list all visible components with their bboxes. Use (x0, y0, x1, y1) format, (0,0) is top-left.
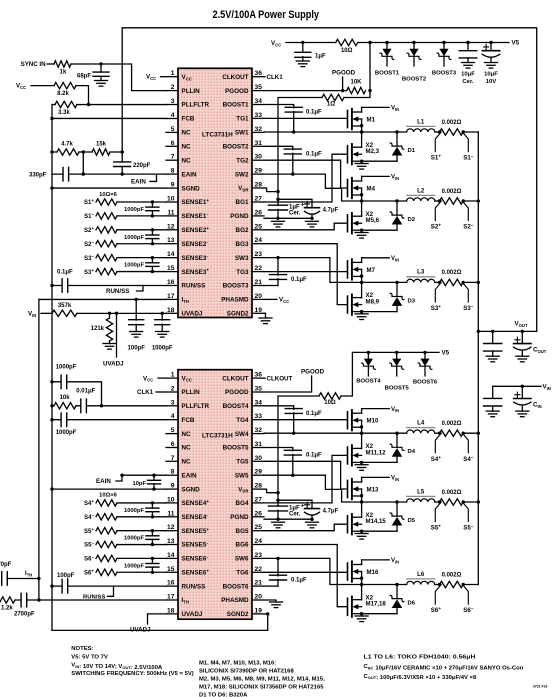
wire TG row U2ch6 (264, 571, 348, 573)
svg-text:28: 28 (255, 182, 263, 189)
UVADJ net stub (116, 313, 118, 357)
svg-text:PGOOD: PGOOD (225, 389, 249, 396)
capacitor 1000pF sense filter (124, 200, 159, 217)
svg-text:33: 33 (255, 413, 263, 420)
wire (47, 63, 54, 65)
schottky diode BOOST6 (413, 351, 438, 386)
svg-text:10pF: 10pF (132, 481, 146, 487)
svg-text:1μF: 1μF (315, 54, 326, 60)
capacitor 10uF 10V polarized (482, 43, 499, 86)
U1 (top LTC3731H) pin 21 BOOST3 (223, 279, 264, 290)
U2 (bottom LTC3731H) pin 4 FCB (166, 413, 195, 424)
svg-text:4: 4 (171, 413, 175, 420)
svg-text:15: 15 (167, 566, 175, 573)
schottky diode D3 (362, 281, 416, 312)
svg-text:3.3k: 3.3k (58, 110, 70, 116)
wire node to inductor ch2 (362, 200, 407, 202)
inductor L6 (406, 571, 435, 585)
ground (306, 522, 319, 528)
svg-text:14: 14 (167, 251, 175, 258)
svg-text:20: 20 (255, 594, 263, 601)
svg-text:M1: M1 (367, 117, 376, 124)
wire V5 drop (344, 43, 370, 98)
VOUT net label (515, 320, 528, 327)
ground (272, 522, 285, 528)
svg-text:0.002Ω: 0.002Ω (442, 270, 462, 276)
svg-text:SGND2: SGND2 (227, 611, 249, 618)
wire EAIN row (52, 173, 166, 175)
svg-text:1000pF: 1000pF (56, 430, 77, 436)
wire source to ground ch5 (360, 530, 363, 534)
svg-text:SENSE3-: SENSE3- (182, 254, 209, 262)
svg-text:SENSE6-: SENSE6- (182, 555, 209, 563)
svg-text:BOOST2: BOOST2 (402, 77, 427, 83)
svg-text:PGND: PGND (230, 213, 249, 220)
wire node to inductor ch3 (362, 281, 407, 283)
wire source to ground ch2 (360, 229, 363, 233)
capacitor COUT polarized (514, 331, 547, 356)
transistor M14,15 (bottom x2) (348, 512, 387, 535)
svg-text:BOOST5: BOOST5 (223, 445, 249, 452)
wire switch node ch2 (360, 188, 363, 216)
transistor M5,6 (bottom x2) (348, 211, 380, 234)
svg-text:10V: 10V (486, 79, 497, 85)
ground (355, 534, 368, 540)
svg-text:Cer.: Cer. (289, 211, 301, 217)
U1 (top LTC3731H) pin 19 SGND2 (227, 307, 264, 318)
U1 (top LTC3731H) pin 11 SENSE1-s (166, 209, 208, 220)
svg-text:PGOOD: PGOOD (225, 88, 249, 95)
svg-text:10Ω×6: 10Ω×6 (99, 493, 117, 499)
node junction (368, 41, 371, 44)
wire switch node ch4 (360, 420, 363, 448)
transistor M7 (top) (348, 258, 376, 280)
ground (270, 602, 283, 608)
CLK1 net label U2 pin2 (137, 389, 166, 396)
U2 sense input S5– with 10ohm resistor (84, 541, 166, 549)
VIN label (28, 311, 36, 318)
wire switch node ch6 (360, 572, 363, 600)
svg-text:12: 12 (167, 524, 175, 531)
svg-text:VIN: VIN (391, 256, 399, 262)
U1 (top LTC3731H) pin 30 TG2 (236, 154, 264, 165)
wire TG row U2ch5 (264, 461, 348, 489)
capacitor 1000pF (152, 313, 173, 351)
node junction (161, 312, 164, 315)
svg-text:CLK1: CLK1 (137, 389, 154, 396)
U1 (top LTC3731H) pin 3 PLLFLTR (166, 98, 209, 109)
1uF label (289, 201, 305, 216)
UVADJ stub U2 (148, 614, 167, 624)
svg-text:RUN/SS: RUN/SS (182, 583, 206, 590)
node junction (438, 130, 465, 133)
svg-text:PHASMD: PHASMD (221, 597, 249, 604)
sense tap lead S5+ (431, 502, 442, 532)
svg-text:UVADJ: UVADJ (103, 361, 124, 368)
svg-text:2: 2 (171, 386, 175, 393)
resistor 4.7k (57, 142, 79, 156)
node junction (82, 150, 85, 153)
U2 (bottom LTC3731H) pin 8 EAIN (166, 469, 197, 480)
svg-text:M10: M10 (367, 418, 379, 425)
wire VDR jog U2 (264, 489, 278, 493)
node junction (82, 172, 85, 175)
U1 sense input S3– with 10ohm resistor (84, 254, 166, 262)
resistor 8.2k (54, 82, 76, 97)
svg-text:UVADJ: UVADJ (182, 611, 203, 618)
resistor 0.002 ohm sense ch2 (440, 189, 464, 204)
IC U1 (top LTC3731H) body (178, 68, 252, 317)
ground (130, 332, 143, 338)
wire source to ground ch6 (360, 612, 363, 616)
U1 sense input S1– with 10ohm resistor (84, 212, 166, 220)
svg-text:Cer.: Cer. (289, 512, 301, 518)
feedback wire from VOUT (121, 28, 123, 152)
capacitor 0.1uF boost (285, 409, 322, 434)
ground (516, 411, 529, 417)
svg-text:D3: D3 (408, 298, 416, 304)
svg-text:SW6: SW6 (235, 556, 249, 563)
transistor M8,9 (bottom x2) (348, 292, 380, 315)
ground (306, 221, 319, 227)
svg-text:10Ω×6: 10Ω×6 (99, 192, 117, 198)
svg-text:SENSE5-: SENSE5- (182, 541, 209, 549)
svg-text:5: 5 (171, 427, 175, 434)
U1 sense input S2+ with 10ohm resistor (84, 226, 166, 234)
svg-text:SYNC IN: SYNC IN (21, 61, 47, 68)
svg-text:L1: L1 (417, 118, 425, 125)
figure number (533, 685, 547, 689)
node junction (87, 103, 90, 106)
svg-text:33: 33 (255, 112, 263, 119)
resistor 3.3k (55, 101, 77, 116)
resistor 0.002 ohm sense ch1 (440, 120, 464, 135)
wire node to inductor ch6 (362, 584, 407, 586)
svg-text:RUN/SS: RUN/SS (106, 288, 129, 295)
U2 (bottom LTC3731H) pin 35 PGOOD (225, 386, 264, 397)
svg-text:NOTES:: NOTES: (71, 646, 93, 652)
capacitor 68pF (77, 64, 109, 81)
svg-text:M2, M3, M5, M6, M8, M9, M11, M: M2, M3, M5, M6, M8, M9, M11, M12, M14, M… (199, 677, 325, 683)
U1 (top LTC3731H) pin 34 BOOST1 (223, 98, 264, 109)
svg-text:D1 TO D6: B320A: D1 TO D6: B320A (199, 693, 248, 697)
svg-text:PLLFLTR: PLLFLTR (182, 102, 210, 109)
svg-text:10: 10 (167, 496, 175, 503)
U2 (bottom LTC3731H) pin 9 SGND (166, 483, 200, 494)
sense tap lead S2+ (431, 201, 442, 231)
svg-text:270pF: 270pF (0, 562, 12, 568)
capacitor 220pF (114, 152, 151, 174)
wire to VOUT bus ch2 (463, 200, 478, 202)
svg-text:24: 24 (255, 237, 263, 244)
capacitor 1000pF sense filter (124, 228, 159, 245)
wire (71, 64, 166, 91)
svg-text:M17,18: M17,18 (366, 601, 387, 608)
capacitor input ceramic (484, 386, 502, 411)
svg-text:SWITCHING FREQUENCY: 500kHz (V: SWITCHING FREQUENCY: 500kHz (V5 = 5V) (71, 671, 194, 677)
wire to VOUT bus ch6 (463, 584, 478, 586)
U1 (top LTC3731H) pin 20 PHASMD (221, 293, 264, 304)
svg-text:100pF: 100pF (57, 573, 75, 579)
svg-text:M1, M4, M7, M10, M13, M16:: M1, M4, M7, M10, M13, M16: (199, 661, 276, 667)
svg-text:2: 2 (171, 84, 175, 91)
svg-text:15: 15 (167, 265, 175, 272)
node junction (266, 612, 269, 615)
svg-text:SENSE4+: SENSE4+ (182, 499, 210, 507)
svg-text:357k: 357k (58, 303, 72, 309)
U1 (top LTC3731H) pin 5 NC (166, 126, 191, 137)
svg-text:121k: 121k (91, 326, 105, 332)
node junction (438, 500, 465, 503)
svg-text:BOOST1: BOOST1 (223, 102, 249, 109)
VIN stub ch1 (362, 106, 400, 112)
U2 (bottom LTC3731H) pin 34 BOOST4 (223, 399, 264, 410)
svg-text:22: 22 (255, 265, 263, 272)
wire VOUT row (478, 330, 536, 332)
svg-text:7: 7 (171, 455, 175, 462)
svg-text:20: 20 (255, 293, 263, 300)
svg-text:PLLFLTR: PLLFLTR (182, 403, 210, 410)
sense tap lead S3- (462, 282, 473, 312)
U2 (bottom LTC3731H) pin 12 SENSE5+s (166, 524, 209, 535)
wire (435, 584, 440, 586)
node junction (438, 583, 465, 586)
VIN stub ch4 (362, 407, 400, 413)
U2 (bottom LTC3731H) pin 27 BG4 (236, 496, 264, 507)
capacitor 1000pF sense filter (124, 256, 159, 273)
wire ITH row U2 (15, 599, 166, 601)
svg-text:17: 17 (167, 594, 175, 601)
svg-text:10: 10 (167, 196, 175, 203)
wire BG5 (U2 pin25) (264, 524, 348, 531)
VCC net label U1 pin1 (146, 74, 166, 81)
resistor 0.002 ohm sense ch3 (440, 270, 464, 285)
svg-text:NC: NC (182, 431, 192, 438)
svg-text:FCB: FCB (182, 116, 195, 123)
svg-text:24: 24 (255, 538, 263, 545)
svg-text:TG5: TG5 (236, 459, 249, 466)
resistor array label 10ohmx6 (99, 192, 117, 198)
svg-text:M16: M16 (367, 569, 379, 576)
U1 (top LTC3731H) pin 10 SENSE1+s (166, 196, 209, 207)
svg-text:CLK1: CLK1 (267, 74, 284, 81)
U1 (top LTC3731H) pin 7 NC (166, 154, 191, 165)
wire SW row U1ch2 (264, 172, 362, 201)
node junction (477, 432, 480, 435)
svg-text:SGND2: SGND2 (227, 311, 249, 318)
svg-text:L1 TO L6: TOKO FDH1040: 0.56μH: L1 TO L6: TOKO FDH1040: 0.56μH (364, 654, 476, 660)
ground (272, 221, 285, 227)
svg-text:BOOST4: BOOST4 (223, 403, 249, 410)
V5 net label bottom (442, 350, 450, 357)
node junction (466, 41, 492, 44)
node junction (108, 312, 118, 315)
svg-text:D5: D5 (408, 518, 416, 524)
U1 (top LTC3731H) pin 28 VDR (238, 182, 264, 193)
resistor 1.2k (0, 597, 15, 612)
U2 (bottom LTC3731H) pin 15 SENSE6+s (166, 566, 209, 577)
ITH node wire (7, 577, 41, 580)
svg-text:4.7μF: 4.7μF (323, 508, 339, 514)
U2 (bottom LTC3731H) pin 20 PHASMD (221, 594, 264, 605)
wire BG4 (U2 pin27) (264, 455, 348, 503)
VIN stub ch2 (362, 175, 400, 181)
svg-text:1000pF: 1000pF (56, 365, 77, 371)
svg-text:SENSE2+: SENSE2+ (182, 226, 210, 234)
svg-text:32: 32 (255, 126, 263, 133)
wire RUN/SS row (50, 284, 166, 287)
svg-text:PGOOD: PGOOD (332, 70, 356, 77)
wire TG row U1ch3 (264, 271, 348, 273)
svg-text:26: 26 (255, 209, 263, 216)
svg-text:16: 16 (167, 279, 175, 286)
schottky diode BOOST3 (432, 41, 457, 77)
svg-text:0.002Ω: 0.002Ω (442, 189, 462, 195)
wire BG1 (U1 pin27) (264, 154, 348, 202)
svg-text:28: 28 (255, 483, 263, 490)
wire BG6 (U2 pin24) (264, 545, 348, 607)
wire switch node ch3 (360, 269, 363, 297)
transistor M16 (top) (348, 560, 379, 582)
svg-text:11: 11 (167, 209, 174, 216)
VCC net label U1 PHASMD (264, 297, 289, 304)
IC U2 (bottom LTC3731H) body (178, 370, 252, 620)
capacitor CIN polarized (514, 386, 542, 411)
wire source to ground ch3 (360, 310, 363, 314)
U2 (bottom LTC3731H) pin 23 SW6 (235, 552, 264, 563)
ground (103, 344, 116, 350)
svg-text:13: 13 (167, 538, 175, 545)
svg-text:SENSE5+: SENSE5+ (182, 527, 210, 535)
svg-text:SGND: SGND (182, 486, 201, 493)
notes right column (364, 654, 524, 681)
U1 (top LTC3731H) pin 14 SENSE3-s (166, 251, 208, 262)
transistor M13 (top) (348, 477, 379, 499)
wire to VOUT bus ch1 (463, 131, 478, 133)
wire node to inductor ch1 (362, 131, 407, 133)
capacitor 10uF ceramic (459, 43, 477, 86)
resistor 10k (50, 395, 76, 409)
ground (156, 332, 169, 338)
U2 (bottom LTC3731H) pin 22 TG6 (236, 566, 264, 577)
svg-text:1: 1 (171, 70, 175, 77)
svg-text:2.5V/100A Power Supply: 2.5V/100A Power Supply (213, 9, 320, 21)
schottky diode D1 (362, 130, 416, 161)
capacitor 0.1uF boost (285, 107, 322, 132)
svg-text:EAIN: EAIN (182, 472, 197, 479)
U2 (bottom LTC3731H) pin 29 SW5 (235, 469, 264, 480)
capacitor 0.01uF (76, 389, 166, 413)
svg-text:5: 5 (171, 126, 175, 133)
U1 (top LTC3731H) pin 33 TG1 (236, 112, 264, 123)
node junction (50, 150, 53, 153)
U1 (top LTC3731H) part label (202, 132, 233, 139)
sense tap lead S2- (462, 201, 473, 231)
svg-text:VIN: VIN (391, 106, 399, 112)
svg-text:30: 30 (255, 154, 263, 161)
VCC label U2 pin1 (143, 375, 166, 382)
svg-text:TG1: TG1 (236, 116, 249, 123)
U1 (top LTC3731H) pin 13 SENSE2-s (166, 237, 208, 248)
1uF label (289, 502, 305, 517)
svg-text:21: 21 (255, 279, 263, 286)
wire PLLFLTR row (52, 104, 166, 106)
UVADJ net label U2 (130, 627, 151, 634)
svg-text:21: 21 (255, 580, 263, 587)
sense tap lead S4+ (431, 433, 442, 463)
sense tap lead S6+ (431, 585, 442, 615)
U1 (top LTC3731H) pin 31 BOOST2 (223, 140, 264, 151)
wire TG row U1ch1 (264, 117, 348, 119)
wire (82, 152, 84, 174)
svg-text:FCB: FCB (182, 417, 195, 424)
svg-text:1000pF: 1000pF (124, 563, 144, 569)
U1 (top LTC3731H) pin 32 SW1 (235, 126, 264, 137)
schottky diode BOOST2 (402, 41, 427, 83)
svg-text:27: 27 (255, 496, 263, 503)
svg-text:36: 36 (255, 372, 263, 379)
svg-text:BOOST4: BOOST4 (356, 379, 381, 385)
svg-text:6: 6 (171, 441, 175, 448)
capacitor 330pF (29, 167, 69, 181)
svg-text:1: 1 (171, 372, 175, 379)
svg-text:0.002Ω: 0.002Ω (442, 572, 462, 578)
ground (355, 233, 368, 239)
svg-text:31: 31 (255, 441, 263, 448)
node junction (521, 385, 524, 388)
ground (486, 411, 499, 417)
svg-text:D2: D2 (408, 217, 416, 223)
svg-text:BOOST6: BOOST6 (223, 583, 249, 590)
svg-text:34: 34 (255, 98, 263, 105)
U1 (top LTC3731H) pin 8 EAIN (166, 168, 197, 179)
svg-text:SENSE1+: SENSE1+ (182, 198, 210, 206)
svg-text:BOOST3: BOOST3 (223, 283, 249, 290)
wire node to inductor ch5 (362, 501, 407, 503)
svg-text:VIN: VIN (391, 558, 399, 564)
svg-text:25: 25 (255, 223, 263, 230)
svg-text:4: 4 (171, 112, 175, 119)
svg-text:EAIN: EAIN (131, 178, 146, 185)
svg-text:1000pF: 1000pF (124, 263, 144, 269)
capacitor 0.1uF boost (284, 450, 322, 475)
transistor M10 (top) (348, 409, 379, 431)
svg-text:0.002Ω: 0.002Ω (442, 421, 462, 427)
wire VDR feed (278, 98, 322, 190)
U1 (top LTC3731H) pin 25 BG2 (236, 223, 264, 234)
wire VOUT bus (477, 132, 479, 585)
U2 (bottom LTC3731H) pin 1 VCC (166, 372, 192, 383)
wire PGOOD row (264, 90, 347, 92)
svg-text:30: 30 (255, 455, 263, 462)
bottom ground rail (52, 614, 268, 631)
node junction (477, 330, 480, 333)
svg-text:100pF: 100pF (128, 346, 146, 352)
U2 (bottom LTC3731H) pin 14 SENSE6-s (166, 552, 208, 563)
svg-text:29: 29 (255, 168, 263, 175)
svg-text:330pF: 330pF (29, 172, 47, 178)
wire switch node ch1 (360, 119, 363, 147)
capacitor 1000pF PLL (50, 365, 103, 408)
svg-text:9: 9 (171, 182, 175, 189)
svg-text:10μF: 10μF (461, 72, 475, 78)
U2 (bottom LTC3731H) pin 10 SENSE4+s (166, 496, 209, 507)
svg-text:35: 35 (255, 386, 263, 393)
wire source to ground ch1 (360, 160, 363, 164)
schottky diode BOOST1 (375, 41, 400, 77)
svg-text:0.1μF: 0.1μF (306, 411, 322, 417)
capacitor 1000pF sense filter (124, 501, 159, 518)
